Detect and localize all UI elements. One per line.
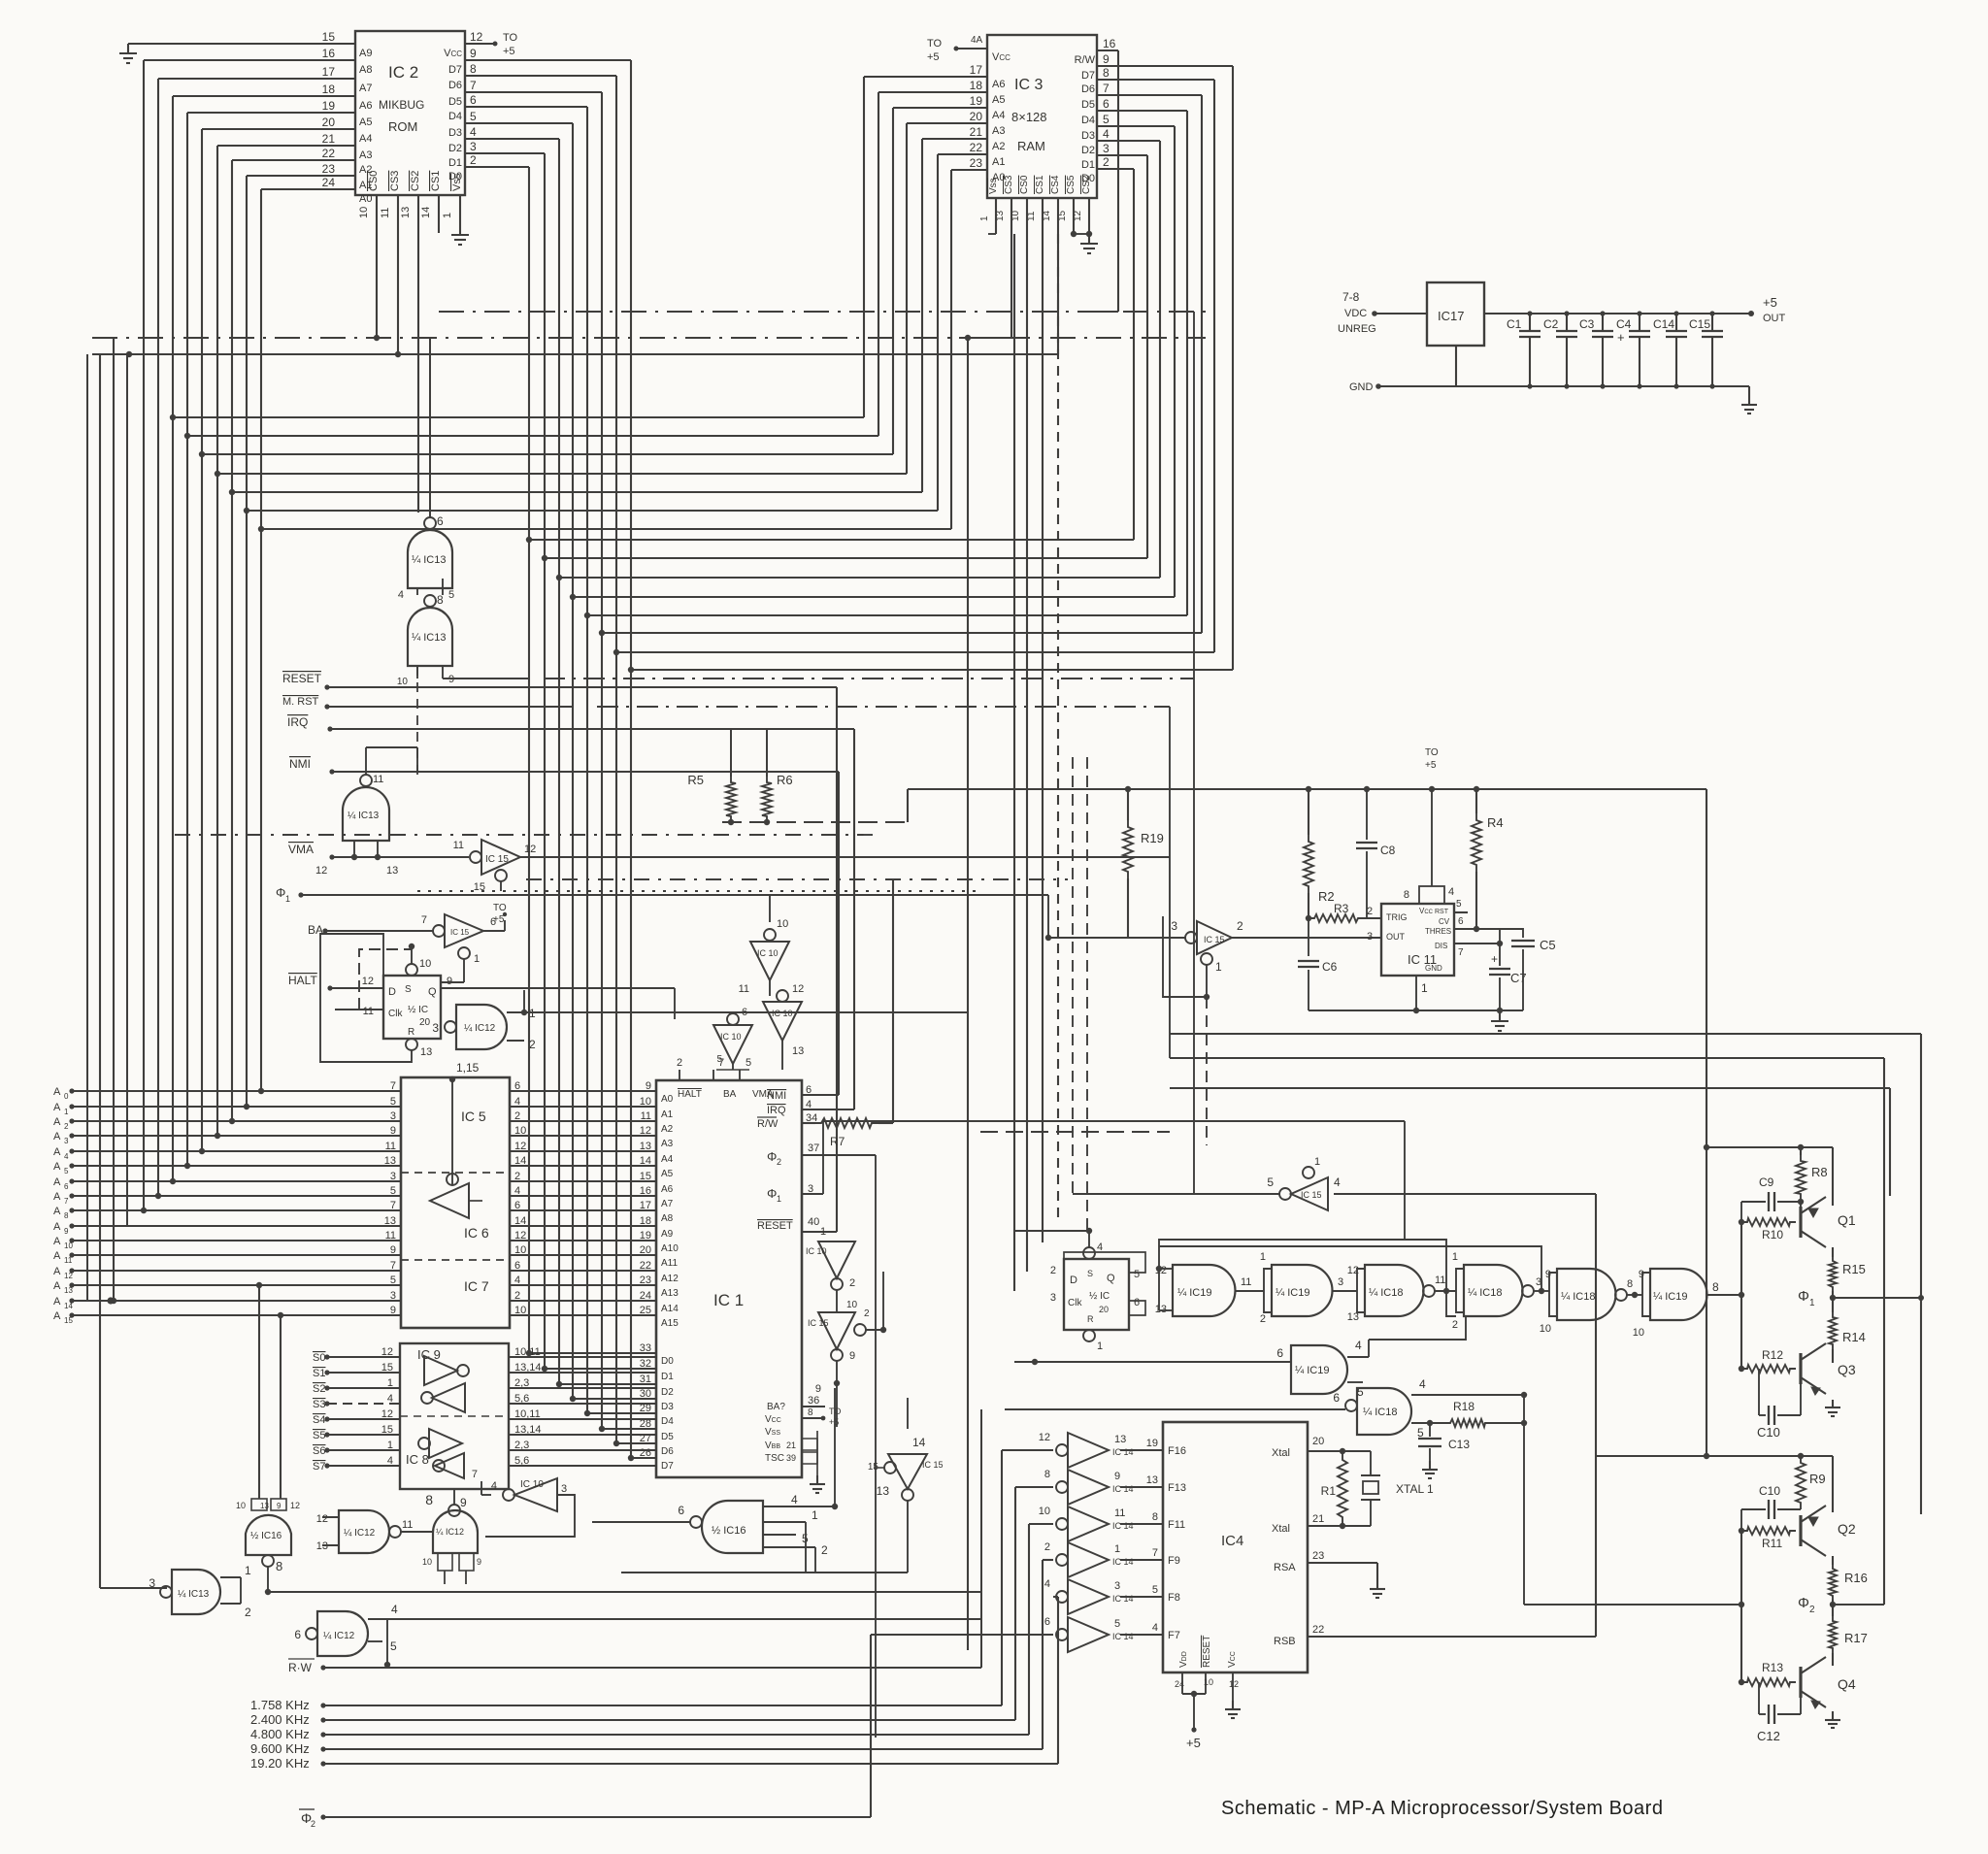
ground at RSA bbox=[1370, 1580, 1385, 1598]
svg-text:R6: R6 bbox=[777, 773, 793, 787]
svg-text:IC4: IC4 bbox=[1221, 1533, 1243, 1549]
svg-text:¼ IC19: ¼ IC19 bbox=[1653, 1291, 1687, 1303]
gate 1/4 IC18 chain4 bbox=[1446, 1251, 1549, 1331]
svg-text:IC 9: IC 9 bbox=[417, 1347, 441, 1362]
svg-text:2: 2 bbox=[777, 1157, 781, 1167]
svg-text:½ IC16: ½ IC16 bbox=[250, 1531, 282, 1541]
svg-text:¼ IC18: ¼ IC18 bbox=[1561, 1291, 1595, 1303]
svg-text:39: 39 bbox=[786, 1453, 796, 1463]
svg-text:7: 7 bbox=[1103, 82, 1110, 95]
svg-text:7-8: 7-8 bbox=[1342, 290, 1360, 304]
inverter IC15 VMA bbox=[453, 840, 1170, 893]
svg-text:12: 12 bbox=[290, 1501, 300, 1510]
wire IC2 address verticals to address rows bbox=[141, 60, 264, 1213]
svg-text:RSB: RSB bbox=[1274, 1636, 1296, 1647]
svg-text:F11: F11 bbox=[1168, 1519, 1185, 1531]
svg-text:7: 7 bbox=[64, 1197, 69, 1206]
wire phi1 line bbox=[276, 885, 1048, 904]
svg-text:3: 3 bbox=[1103, 142, 1110, 155]
svg-text:R19: R19 bbox=[1141, 831, 1164, 845]
wire IC2 CS3 stub bbox=[395, 195, 401, 357]
svg-text:3: 3 bbox=[64, 1137, 69, 1145]
svg-text:9: 9 bbox=[448, 674, 454, 685]
wire IC9/IC8 rows right bbox=[509, 1357, 656, 1466]
IC2 left pin numbers bbox=[322, 30, 373, 205]
wire IC3 CS0 long vertical bbox=[1026, 291, 1028, 1272]
svg-text:C12: C12 bbox=[1757, 1729, 1780, 1743]
svg-text:IC 14: IC 14 bbox=[1112, 1594, 1134, 1604]
svg-text:C6: C6 bbox=[1322, 960, 1338, 974]
svg-text:¼ IC12: ¼ IC12 bbox=[344, 1527, 376, 1539]
svg-text:10: 10 bbox=[846, 1300, 858, 1310]
svg-text:15: 15 bbox=[381, 1362, 393, 1374]
svg-text:7: 7 bbox=[472, 1469, 478, 1480]
svg-text:5: 5 bbox=[745, 1057, 751, 1069]
svg-text:4: 4 bbox=[391, 1603, 398, 1616]
svg-text:1: 1 bbox=[1260, 1251, 1266, 1263]
svg-text:4.800 KHz: 4.800 KHz bbox=[250, 1727, 310, 1741]
svg-text:IRQ: IRQ bbox=[287, 715, 308, 729]
svg-text:¼ IC13: ¼ IC13 bbox=[348, 810, 380, 821]
svg-text:A1: A1 bbox=[992, 156, 1005, 168]
wire IC11 thres bbox=[1454, 916, 1500, 932]
svg-text:TSC: TSC bbox=[765, 1453, 784, 1464]
svg-text:D1: D1 bbox=[448, 157, 462, 169]
resistor R16 bbox=[1829, 1556, 1868, 1605]
svg-text:1: 1 bbox=[442, 213, 453, 218]
wire IC4 xtal pins bbox=[1308, 1448, 1371, 1529]
svg-text:3: 3 bbox=[1367, 931, 1373, 943]
wire 555 bottom rail bbox=[1309, 1010, 1523, 1011]
svg-text:9: 9 bbox=[477, 1557, 481, 1567]
svg-text:IC 14: IC 14 bbox=[1112, 1521, 1134, 1531]
svg-text:R7: R7 bbox=[830, 1135, 845, 1148]
ground at C13 bbox=[1422, 1461, 1438, 1478]
svg-text:6: 6 bbox=[1333, 1391, 1340, 1405]
IC1 data pin labels bbox=[640, 1342, 674, 1472]
svg-text:10: 10 bbox=[397, 677, 409, 687]
svg-text:4A: 4A bbox=[971, 35, 983, 46]
svg-text:13: 13 bbox=[792, 1045, 804, 1057]
wire NMI line bbox=[289, 757, 839, 775]
svg-text:11: 11 bbox=[373, 774, 383, 785]
svg-text:A6: A6 bbox=[992, 79, 1005, 90]
capacitor C9 bbox=[1741, 1175, 1801, 1222]
svg-text:R16: R16 bbox=[1844, 1571, 1868, 1585]
svg-text:IC 15: IC 15 bbox=[1204, 935, 1225, 944]
wire Q2 base vertical bbox=[1740, 1531, 1742, 1682]
svg-text:Q: Q bbox=[428, 986, 437, 998]
wire A15 tap bbox=[278, 1312, 283, 1499]
svg-text:20: 20 bbox=[1312, 1436, 1324, 1447]
svg-text:RESET: RESET bbox=[1202, 1636, 1212, 1668]
svg-text:S2: S2 bbox=[313, 1383, 325, 1395]
svg-text:14: 14 bbox=[912, 1436, 926, 1449]
svg-text:6: 6 bbox=[470, 93, 477, 107]
wire Q3 emitter gnd bbox=[0, 0, 1, 1]
wire IRQ vertical to IC1 bbox=[802, 729, 854, 1109]
svg-text:5: 5 bbox=[390, 1639, 397, 1653]
svg-text:C14: C14 bbox=[1653, 317, 1674, 331]
svg-text:2: 2 bbox=[1452, 1319, 1458, 1331]
IC2 right pin numbers bbox=[444, 30, 483, 182]
svg-text:Xtal: Xtal bbox=[1272, 1447, 1290, 1459]
svg-text:C2: C2 bbox=[1543, 317, 1559, 331]
svg-text:Vss: Vss bbox=[451, 173, 463, 191]
svg-text:IC 10: IC 10 bbox=[772, 1009, 793, 1018]
wire IC2 address pins left bundle bbox=[144, 60, 355, 189]
wire ic16b chain bbox=[805, 1522, 807, 1573]
svg-text:¼ IC19: ¼ IC19 bbox=[1295, 1365, 1329, 1376]
svg-text:Φ: Φ bbox=[1798, 1595, 1809, 1611]
svg-text:D5: D5 bbox=[1081, 99, 1095, 111]
svg-text:D2: D2 bbox=[448, 143, 462, 154]
svg-text:A: A bbox=[53, 1161, 61, 1173]
svg-text:¼ IC13: ¼ IC13 bbox=[178, 1588, 210, 1600]
wire long row 1166 bbox=[980, 1131, 1170, 1133]
wire IC16b pin4 node bbox=[786, 1388, 838, 1509]
svg-text:HALT: HALT bbox=[288, 974, 317, 987]
wire IC1 BA36 bbox=[802, 1406, 825, 1407]
svg-text:10: 10 bbox=[777, 918, 788, 930]
resistor R8 bbox=[1796, 1147, 1828, 1213]
svg-text:9: 9 bbox=[1545, 1269, 1551, 1280]
svg-text:30: 30 bbox=[640, 1388, 651, 1400]
wire dashed control rails bbox=[175, 835, 1068, 891]
svg-text:TRIG: TRIG bbox=[1386, 912, 1408, 922]
svg-text:1: 1 bbox=[1097, 1341, 1103, 1352]
wire IC10a input bbox=[769, 895, 771, 922]
ground at IC2 Vss bbox=[451, 195, 469, 245]
junctions data rows bbox=[526, 1350, 634, 1461]
svg-text:4: 4 bbox=[1103, 127, 1110, 141]
svg-text:A: A bbox=[53, 1191, 61, 1203]
svg-text:5: 5 bbox=[1456, 899, 1462, 910]
wire IC15 lower node bbox=[815, 1383, 837, 1427]
wire phi1 long horizontal bbox=[1170, 1033, 1921, 1035]
svg-text:23: 23 bbox=[1312, 1550, 1324, 1562]
svg-text:RAM: RAM bbox=[1017, 139, 1045, 153]
svg-text:CS5: CS5 bbox=[1066, 175, 1077, 194]
svg-text:4: 4 bbox=[470, 125, 477, 139]
svg-text:Q: Q bbox=[1107, 1273, 1115, 1284]
svg-text:Xtal: Xtal bbox=[1272, 1523, 1290, 1535]
svg-text:+5: +5 bbox=[927, 51, 940, 63]
IC9/IC8 right pin numbers bbox=[514, 1346, 542, 1467]
svg-text:4: 4 bbox=[1152, 1622, 1158, 1634]
IC3 right pin numbers bbox=[1075, 37, 1116, 184]
svg-text:5: 5 bbox=[1267, 1175, 1274, 1189]
svg-text:RSA: RSA bbox=[1274, 1562, 1296, 1573]
wire phi lines left ends bbox=[1169, 857, 1171, 1058]
svg-text:31: 31 bbox=[640, 1374, 651, 1385]
svg-text:CS2: CS2 bbox=[1081, 175, 1092, 194]
svg-text:32: 32 bbox=[640, 1358, 651, 1370]
svg-text:MIKBUG: MIKBUG bbox=[379, 98, 424, 112]
svg-text:1: 1 bbox=[820, 1226, 826, 1238]
svg-text:1: 1 bbox=[245, 1564, 251, 1577]
svg-text:11: 11 bbox=[453, 840, 464, 851]
svg-text:CS0: CS0 bbox=[1019, 175, 1030, 194]
svg-text:A4: A4 bbox=[661, 1154, 674, 1165]
svg-text:TO: TO bbox=[927, 38, 943, 50]
resistor R4 bbox=[1472, 789, 1504, 929]
svg-text:4: 4 bbox=[1044, 1578, 1050, 1590]
svg-text:2: 2 bbox=[1260, 1313, 1266, 1325]
resistor R2 bbox=[1304, 789, 1335, 921]
svg-text:0: 0 bbox=[64, 1092, 69, 1101]
svg-text:16: 16 bbox=[1103, 37, 1116, 50]
wire dashed verticals center bbox=[1073, 757, 1087, 1231]
resistor R19 bbox=[1123, 789, 1164, 938]
svg-text:A4: A4 bbox=[359, 133, 372, 145]
IC IC9 IC8 buffers bbox=[400, 1343, 509, 1489]
svg-text:2: 2 bbox=[1237, 919, 1243, 933]
svg-text:+5: +5 bbox=[1425, 760, 1437, 771]
svg-text:6: 6 bbox=[1044, 1616, 1050, 1628]
svg-text:18: 18 bbox=[970, 79, 983, 92]
svg-text:S7: S7 bbox=[313, 1461, 325, 1473]
wire +5 rail 555 area bbox=[908, 786, 1706, 792]
svg-text:A12: A12 bbox=[661, 1274, 679, 1284]
svg-text:A8: A8 bbox=[661, 1213, 674, 1224]
wire M.RST dash continuation bbox=[1170, 312, 1194, 1194]
svg-text:13: 13 bbox=[1114, 1434, 1126, 1445]
svg-text:A9: A9 bbox=[359, 48, 372, 59]
svg-text:4: 4 bbox=[387, 1455, 393, 1467]
svg-text:1: 1 bbox=[387, 1377, 393, 1389]
svg-text:TO: TO bbox=[493, 903, 507, 913]
gate 1/4 IC18 lower bbox=[1005, 1377, 1527, 1440]
svg-text:C9: C9 bbox=[1759, 1175, 1774, 1189]
ground at Q4 bbox=[1825, 1711, 1840, 1728]
gate 1/4 IC12 halt bbox=[432, 990, 536, 1051]
wire M.RST line bbox=[282, 696, 1170, 710]
svg-text:R/W: R/W bbox=[757, 1118, 779, 1130]
wire IC3 CS vertical 2 bbox=[1013, 234, 1015, 1291]
wire center vertical continuation bbox=[967, 777, 969, 1650]
wire phi1 top rail bbox=[1706, 1144, 1833, 1150]
svg-text:5: 5 bbox=[470, 110, 477, 123]
svg-text:Clk: Clk bbox=[1068, 1298, 1082, 1308]
svg-text:A: A bbox=[53, 1250, 61, 1262]
wire IC15 pin1 down bbox=[1014, 997, 1207, 1231]
svg-text:A5: A5 bbox=[992, 94, 1005, 106]
wire BA line bbox=[308, 923, 433, 937]
svg-text:13: 13 bbox=[1155, 1304, 1167, 1315]
svg-text:BA: BA bbox=[723, 1089, 737, 1100]
svg-text:D6: D6 bbox=[1081, 83, 1095, 95]
svg-text:40: 40 bbox=[808, 1216, 819, 1228]
wire halt chain lines bbox=[524, 1011, 968, 1013]
flip-flop 1/2 IC20 b bbox=[1050, 1228, 1145, 1352]
svg-text:10: 10 bbox=[236, 1501, 246, 1510]
gate 1/4 IC19 chain6 bbox=[1633, 1269, 1744, 1339]
svg-text:A: A bbox=[53, 1176, 61, 1188]
svg-text:A: A bbox=[53, 1310, 61, 1322]
svg-text:19: 19 bbox=[1146, 1438, 1158, 1449]
resistor R17 bbox=[1829, 1605, 1868, 1666]
svg-text:8: 8 bbox=[808, 1407, 813, 1418]
gate 1/4 IC12 c bbox=[422, 1510, 481, 1584]
gate 1/4 IC13 VMA bbox=[343, 747, 417, 841]
svg-text:IC 10: IC 10 bbox=[720, 1032, 742, 1042]
svg-text:OUT: OUT bbox=[1386, 932, 1406, 942]
inverter IC10 b bbox=[763, 983, 804, 1070]
crystal XTAL1 bbox=[1361, 1451, 1434, 1526]
svg-text:6: 6 bbox=[294, 1628, 301, 1641]
svg-text:17: 17 bbox=[322, 65, 336, 79]
flip-flop 1/2 IC20 bbox=[362, 944, 452, 1058]
svg-text:+: + bbox=[1491, 952, 1498, 966]
svg-text:1: 1 bbox=[529, 1007, 536, 1020]
svg-text:3: 3 bbox=[561, 1483, 567, 1495]
svg-text:13: 13 bbox=[316, 1540, 328, 1552]
ground at IC2 A9 wire bbox=[119, 44, 137, 63]
svg-text:CS2: CS2 bbox=[410, 171, 421, 191]
svg-text:5: 5 bbox=[1103, 113, 1110, 126]
svg-text:¼ IC19: ¼ IC19 bbox=[1177, 1287, 1211, 1299]
svg-text:1: 1 bbox=[387, 1440, 393, 1451]
svg-text:IC 6: IC 6 bbox=[464, 1225, 489, 1241]
IC3 bottom pin labels bbox=[979, 175, 1092, 221]
IC2 bottom pin labels bbox=[358, 171, 463, 218]
svg-text:¼ IC19: ¼ IC19 bbox=[1276, 1287, 1309, 1299]
svg-text:GND: GND bbox=[1425, 964, 1442, 973]
svg-text:THRES: THRES bbox=[1425, 927, 1451, 936]
svg-text:IC 15: IC 15 bbox=[485, 854, 509, 865]
svg-text:23: 23 bbox=[970, 156, 983, 170]
svg-text:GND: GND bbox=[1349, 381, 1374, 393]
svg-text:Φ: Φ bbox=[276, 885, 285, 900]
svg-text:2: 2 bbox=[864, 1308, 870, 1319]
wire phi2 long horizontal bbox=[1170, 1058, 1890, 1196]
wire IC2 CS2 stub bbox=[417, 195, 418, 777]
svg-text:8: 8 bbox=[437, 593, 444, 607]
svg-text:F9: F9 bbox=[1168, 1555, 1180, 1567]
IC1 address pin labels bbox=[640, 1080, 679, 1329]
svg-text:6: 6 bbox=[1276, 1346, 1283, 1360]
svg-text:15: 15 bbox=[322, 30, 336, 44]
inverter IC10 bottom bbox=[472, 1469, 575, 1537]
svg-text:8: 8 bbox=[64, 1211, 69, 1220]
svg-text:36: 36 bbox=[808, 1395, 819, 1407]
svg-text:R5: R5 bbox=[687, 773, 704, 787]
wire VMA line bbox=[288, 841, 469, 877]
wire gate to Q1 node bbox=[0, 0, 1, 1]
svg-text:½ IC: ½ IC bbox=[408, 1005, 428, 1015]
svg-text:R/W: R/W bbox=[1075, 54, 1096, 66]
svg-text:C5: C5 bbox=[1540, 938, 1556, 952]
svg-text:D7: D7 bbox=[661, 1461, 674, 1472]
transistor Q3 bbox=[1801, 1343, 1856, 1395]
svg-text:Schematic - MP-A Microprocesso: Schematic - MP-A Microprocessor/System B… bbox=[1221, 1798, 1663, 1819]
svg-text:26: 26 bbox=[640, 1447, 651, 1459]
svg-text:2: 2 bbox=[311, 1819, 315, 1829]
svg-text:A6: A6 bbox=[359, 100, 372, 112]
svg-text:VCC: VCC bbox=[444, 48, 462, 59]
svg-text:20: 20 bbox=[1099, 1305, 1109, 1314]
capacitor C11 bbox=[1741, 1484, 1801, 1531]
svg-text:IC 8: IC 8 bbox=[406, 1452, 429, 1467]
gate 1/4 IC12 d bbox=[294, 1603, 981, 1668]
svg-text:10: 10 bbox=[419, 958, 431, 970]
svg-text:TO: TO bbox=[503, 32, 518, 44]
wire vertical 920 bbox=[892, 879, 894, 1123]
svg-text:4: 4 bbox=[1355, 1339, 1362, 1352]
svg-text:20: 20 bbox=[322, 116, 336, 129]
inverter IC15 555 bbox=[1045, 919, 1381, 974]
svg-text:C8: C8 bbox=[1380, 844, 1396, 857]
svg-text:DIS: DIS bbox=[1435, 942, 1447, 950]
svg-text:S1: S1 bbox=[313, 1368, 325, 1379]
svg-text:12: 12 bbox=[381, 1408, 393, 1420]
svg-text:13: 13 bbox=[260, 1502, 269, 1510]
svg-text:IC 14: IC 14 bbox=[1112, 1557, 1134, 1567]
svg-text:9: 9 bbox=[1103, 52, 1110, 66]
svg-text:F13: F13 bbox=[1168, 1482, 1186, 1494]
svg-text:D7: D7 bbox=[448, 64, 462, 76]
svg-text:8: 8 bbox=[1627, 1278, 1633, 1290]
baud rate labels bbox=[250, 1698, 326, 1771]
resistor R9 bbox=[1796, 1456, 1826, 1509]
svg-text:R10: R10 bbox=[1762, 1228, 1783, 1242]
svg-text:D2: D2 bbox=[1081, 145, 1095, 156]
wire IC3 data verticals to data bus bbox=[526, 66, 1233, 673]
svg-text:C4: C4 bbox=[1616, 317, 1632, 331]
svg-text:8: 8 bbox=[1712, 1280, 1719, 1294]
svg-text:5: 5 bbox=[1134, 1269, 1140, 1280]
svg-text:¼ IC18: ¼ IC18 bbox=[1369, 1287, 1403, 1299]
svg-text:5: 5 bbox=[1152, 1584, 1158, 1596]
svg-text:IC 1: IC 1 bbox=[713, 1291, 744, 1309]
IC IC17 voltage regulator bbox=[1427, 282, 1484, 346]
svg-text:A0: A0 bbox=[359, 193, 372, 205]
svg-text:A: A bbox=[53, 1116, 61, 1128]
svg-text:A9: A9 bbox=[661, 1229, 674, 1240]
wire GND rail bbox=[1349, 346, 1749, 393]
wire IC1 phi1 pin bbox=[802, 1121, 823, 1194]
svg-text:2: 2 bbox=[1103, 155, 1110, 169]
svg-text:D3: D3 bbox=[448, 127, 462, 139]
svg-text:C7: C7 bbox=[1510, 971, 1527, 985]
svg-text:IRQ: IRQ bbox=[767, 1105, 786, 1116]
wire IC10 to IC1 top pins bbox=[677, 1057, 751, 1080]
capacitors C1 C2 C3 C4 C14 C15 bbox=[1507, 311, 1723, 388]
svg-text:TO: TO bbox=[1425, 747, 1439, 758]
svg-text:XTAL 1: XTAL 1 bbox=[1396, 1482, 1434, 1496]
svg-text:8: 8 bbox=[1103, 66, 1110, 80]
svg-text:A5: A5 bbox=[661, 1169, 674, 1179]
svg-text:5: 5 bbox=[1114, 1618, 1120, 1630]
svg-text:1: 1 bbox=[1114, 1543, 1120, 1555]
resistor R10 bbox=[1739, 1218, 1796, 1242]
wire IC3 CS vertical 3 bbox=[1042, 234, 1044, 1242]
svg-text:37: 37 bbox=[808, 1142, 819, 1154]
svg-text:RST: RST bbox=[1435, 909, 1449, 915]
svg-text:¼ IC12: ¼ IC12 bbox=[323, 1630, 355, 1641]
wire IC13 lower inputs bbox=[397, 666, 1194, 687]
transistor Q2 bbox=[1801, 1506, 1856, 1556]
svg-text:4: 4 bbox=[1334, 1175, 1341, 1189]
svg-text:11: 11 bbox=[739, 983, 749, 995]
resistor R1 bbox=[1321, 1451, 1347, 1526]
svg-text:10: 10 bbox=[358, 207, 370, 218]
IC5/6/7 pin numbers bbox=[384, 1080, 527, 1316]
svg-text:Vss: Vss bbox=[988, 178, 999, 194]
svg-text:4: 4 bbox=[1448, 886, 1454, 898]
svg-text:IC 14: IC 14 bbox=[1112, 1484, 1134, 1494]
